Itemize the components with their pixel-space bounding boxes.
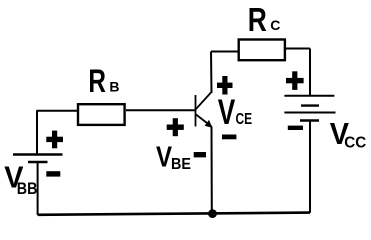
wire right vertical bottom <box>309 121 311 213</box>
plus sign V_CC <box>286 71 304 90</box>
plus sign V_CE <box>217 76 233 95</box>
battery V_CC plate long 1 <box>284 95 334 97</box>
resistor R_C <box>239 40 285 61</box>
wire base: R_B to transistor base <box>126 109 196 111</box>
battery V_BB plate long <box>13 153 63 155</box>
battery V_CC plate short 2 <box>300 119 319 121</box>
transistor Q1 collector diagonal <box>196 93 211 110</box>
wire emitter vertical <box>211 127 213 214</box>
junction dot emitter-ground <box>208 209 217 218</box>
wire left vertical bottom <box>37 162 39 215</box>
battery V_CC plate short 1 <box>301 104 319 106</box>
transistor Q1 emitter diagonal <box>196 115 212 127</box>
plus sign V_BE <box>167 118 184 136</box>
wire collector horizontal to R_C <box>211 51 239 53</box>
battery V_CC plate long 2 <box>284 112 335 114</box>
svg-text:V: V <box>218 92 236 132</box>
svg-text:BE: BE <box>171 156 191 174</box>
minus sign V_BE <box>194 152 206 157</box>
minus sign V_CE <box>222 135 236 140</box>
svg-text:V: V <box>156 140 172 173</box>
transistor Q1 base bar <box>195 95 197 127</box>
resistor R_B <box>78 104 125 125</box>
wire right vertical top <box>309 49 311 96</box>
svg-text:CC: CC <box>344 134 366 151</box>
wire top-left horizontal from V_BB to R_B <box>36 110 77 112</box>
wire R_C right to V_CC <box>286 48 310 50</box>
wire collector vertical <box>210 52 213 94</box>
svg-text:CE: CE <box>236 109 253 127</box>
battery V_BB plate short <box>28 161 48 163</box>
minus sign V_BB <box>46 171 60 176</box>
svg-text:R: R <box>88 64 106 100</box>
svg-text:B: B <box>109 79 119 95</box>
svg-text:BB: BB <box>17 180 38 198</box>
svg-text:R: R <box>248 2 267 38</box>
wire bottom rail <box>38 213 310 215</box>
svg-text:C: C <box>270 17 280 33</box>
minus sign V_CC <box>288 126 303 130</box>
wire left vertical top <box>36 111 38 154</box>
transistor Q1 emitter arrowhead <box>205 120 213 128</box>
plus sign V_BB <box>46 131 63 149</box>
